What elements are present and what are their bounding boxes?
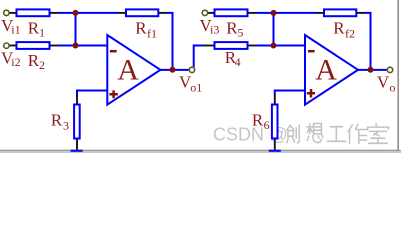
svg-text:6: 6 <box>264 118 270 132</box>
svg-text:A: A <box>117 53 139 86</box>
svg-text:R: R <box>333 19 345 38</box>
svg-text:R: R <box>28 19 40 38</box>
svg-text:R: R <box>51 110 63 129</box>
svg-text:A: A <box>315 53 337 86</box>
svg-text:5: 5 <box>237 25 243 39</box>
svg-text:R: R <box>28 51 40 70</box>
svg-text:f1: f1 <box>147 26 157 40</box>
svg-text:R: R <box>135 19 147 38</box>
svg-text:i2: i2 <box>11 55 20 69</box>
svg-text:3: 3 <box>63 119 69 133</box>
svg-text:2: 2 <box>39 58 45 72</box>
svg-text:i3: i3 <box>210 23 219 37</box>
svg-text:i1: i1 <box>11 23 20 37</box>
svg-text:4: 4 <box>235 55 241 69</box>
svg-text:1: 1 <box>39 25 45 39</box>
svg-text:V: V <box>377 73 390 92</box>
svg-text:o1: o1 <box>190 80 202 94</box>
svg-text:o: o <box>389 80 395 94</box>
svg-text:f2: f2 <box>345 26 355 40</box>
svg-text:R: R <box>252 110 264 129</box>
